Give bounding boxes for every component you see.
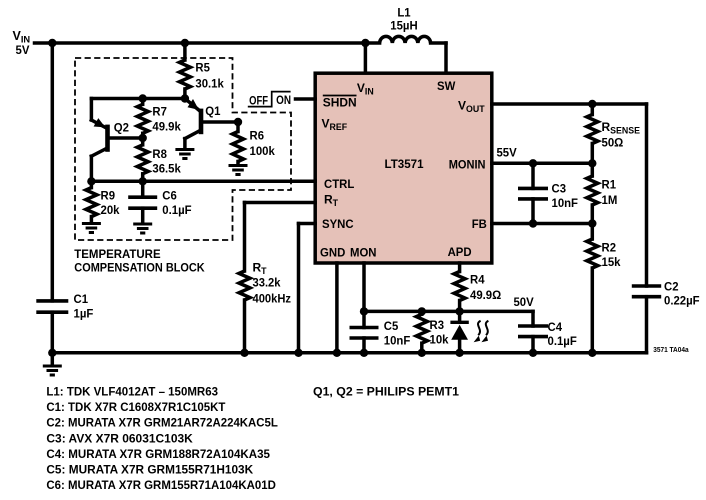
svg-text:R2: R2 [602, 241, 617, 255]
label figure id [653, 345, 689, 354]
label bill of materials [46, 384, 278, 492]
svg-text:GND: GND [320, 245, 346, 259]
transistor Q1 [185, 99, 238, 149]
junction FB / C3 [529, 219, 537, 227]
svg-text:0.22µF: 0.22µF [664, 293, 700, 307]
svg-text:CTRL: CTRL [324, 177, 354, 191]
wire VIN pin drop [364, 43, 368, 73]
svg-text:FB: FB [472, 217, 487, 231]
photodiode D1 [450, 311, 468, 352]
junction top rail / L1 and VIN pin [361, 39, 369, 47]
resistor R1 [587, 163, 598, 223]
resistor R5 [179, 43, 190, 99]
junction bottom rail / photodiode [455, 349, 463, 357]
junction bottom rail / R3 [418, 349, 426, 357]
label R7 value [152, 105, 181, 134]
svg-text:C5: MURATA X7R GRM155R71H103K: C5: MURATA X7R GRM155R71H103K [46, 463, 253, 477]
junction temp top / R7 [139, 94, 147, 102]
junction bottom rail / R2 [588, 349, 596, 357]
pin MON [350, 245, 377, 259]
wire MON row [364, 310, 533, 314]
svg-text:L1: TDK VLF4012AT – 150MR63: L1: TDK VLF4012AT – 150MR63 [46, 384, 218, 398]
junction bottom rail / C1 ground [48, 349, 56, 357]
label R3 value [430, 318, 449, 347]
junction bottom rail / C5 [360, 349, 368, 357]
svg-text:50V: 50V [514, 295, 534, 309]
capacitor C6 [128, 181, 157, 222]
junction bottom rail / C4 [529, 349, 537, 357]
label U1 part number [385, 157, 424, 171]
label R6 value [250, 129, 276, 159]
pin VOUT [458, 99, 485, 115]
wire RT net [245, 203, 316, 272]
svg-text:ON: ON [276, 93, 291, 107]
resistor RSENSE [587, 104, 598, 163]
label R8 value [152, 147, 181, 176]
wire SHDN stub [296, 97, 316, 101]
label temperature compensation block [74, 247, 205, 275]
label node 50V [514, 295, 534, 309]
svg-text:15k: 15k [602, 255, 621, 269]
pin RT [324, 193, 339, 209]
label RSENSE value [602, 120, 641, 150]
svg-text:1µF: 1µF [74, 307, 94, 321]
junction MON row / MON pin [360, 307, 368, 315]
svg-text:Q1, Q2 = PHILIPS PEMT1: Q1, Q2 = PHILIPS PEMT1 [313, 384, 459, 398]
wire left rail [51, 43, 55, 301]
junction bottom rail / SYNC [294, 349, 302, 357]
svg-text:C2: C2 [664, 280, 679, 294]
resistor R2 [587, 224, 598, 353]
svg-text:OFF: OFF [249, 93, 268, 107]
pin SYNC [322, 217, 354, 231]
label Q2 [114, 121, 130, 135]
IC U1 LT3571 body [315, 73, 492, 263]
svg-text:C1: TDK X7R C1608X7R1C105KT: C1: TDK X7R C1608X7R1C105KT [46, 400, 226, 414]
svg-text:C3: AVX X7R 06031C103K: C3: AVX X7R 06031C103K [46, 431, 193, 445]
node VIN input label [13, 29, 31, 57]
svg-text:49.9k: 49.9k [152, 120, 181, 134]
svg-text:MONIN: MONIN [449, 158, 486, 172]
capacitor C4 [518, 311, 548, 352]
svg-text:C1: C1 [74, 292, 89, 306]
capacitor C2 [632, 286, 661, 353]
svg-text:R1: R1 [602, 178, 617, 192]
junction R7 R8 Q2 base [139, 134, 147, 142]
junction MON row / R3 [418, 307, 426, 315]
label R4 value [470, 273, 502, 303]
capacitor C1 [36, 301, 68, 353]
svg-text:R9: R9 [101, 189, 116, 203]
svg-text:33.2k: 33.2k [253, 276, 281, 290]
ground at C1 [43, 353, 62, 375]
wire L1 lead left [365, 41, 379, 45]
pin SHDN [323, 96, 357, 110]
resistor RT [239, 271, 250, 353]
label C6 value [162, 189, 191, 218]
svg-text:SYNC: SYNC [322, 217, 354, 231]
svg-text:0.1µF: 0.1µF [162, 203, 191, 217]
wire CTRL net [91, 180, 315, 184]
svg-text:36.5k: 36.5k [152, 162, 181, 176]
label C1 value [74, 292, 94, 321]
svg-text:C4: MURATA X7R GRM188R72A104KA: C4: MURATA X7R GRM188R72A104KA35 [46, 447, 270, 461]
svg-text:R4: R4 [470, 273, 485, 287]
svg-text:RT: RT [253, 260, 268, 276]
svg-text:20k: 20k [101, 203, 120, 217]
svg-text:Q1: Q1 [205, 104, 221, 118]
wire SYNC net [299, 224, 316, 353]
svg-text:10nF: 10nF [384, 333, 411, 347]
resistor R3 [416, 311, 427, 352]
label R5 value [195, 61, 224, 91]
pin MONIN [449, 158, 486, 172]
wire FB net [492, 222, 593, 226]
ground at C6 [133, 224, 152, 233]
junction bottom rail / GND pin [333, 349, 341, 357]
label C3 value [552, 182, 579, 211]
label Q1 Q2 part note [313, 384, 459, 398]
junction VREF / R6 [234, 118, 242, 126]
label R2 value [602, 241, 621, 270]
svg-text:LT3571: LT3571 [385, 157, 424, 171]
svg-text:10k: 10k [430, 333, 449, 347]
junction top rail / R5 [181, 39, 189, 47]
label L1 value [390, 6, 417, 33]
svg-text:R7: R7 [152, 105, 167, 119]
pin FB [472, 217, 487, 231]
resistor R9 [86, 181, 97, 222]
svg-text:Q2: Q2 [114, 121, 130, 135]
svg-text:400kHz: 400kHz [253, 291, 292, 305]
label C5 value [384, 319, 411, 347]
svg-text:C3: C3 [552, 182, 567, 196]
capacitor C3 [518, 163, 548, 223]
svg-text:COMPENSATION BLOCK: COMPENSATION BLOCK [74, 261, 205, 275]
junction FB / R1 R2 [588, 219, 596, 227]
svg-text:0.1µF: 0.1µF [548, 334, 577, 348]
svg-text:C4: C4 [548, 320, 563, 334]
svg-text:30.1k: 30.1k [195, 77, 224, 91]
svg-text:SW: SW [437, 79, 456, 93]
label C2 value [664, 280, 700, 308]
junction MONIN / RSENSE R1 [588, 159, 596, 167]
svg-text:L1: L1 [397, 6, 411, 20]
junction MONIN / C3 [529, 159, 537, 167]
pin GND [320, 245, 346, 259]
junction temp top / R5 Q1 [181, 94, 189, 102]
label R9 value [101, 189, 120, 218]
wire L1 to SW pin [431, 43, 446, 73]
svg-text:3571 TA04a: 3571 TA04a [653, 345, 689, 354]
ground at R9 [82, 224, 101, 233]
junction bottom rail / RT [240, 349, 248, 357]
svg-text:C6: MURATA X7R GRM155R71A104KA: C6: MURATA X7R GRM155R71A104KA01D [46, 478, 276, 492]
label Q1 [205, 104, 221, 118]
junction VOUT / RSENSE [588, 100, 596, 108]
pin VIN [357, 81, 374, 97]
svg-text:10nF: 10nF [552, 196, 579, 210]
wire bottom ground rail [52, 351, 646, 355]
label OFF ON toggle [248, 92, 291, 108]
pin VREF [322, 117, 348, 133]
junction CTRL / Q2 collector R9 [87, 177, 95, 185]
svg-text:R6: R6 [250, 129, 265, 143]
svg-text:50Ω: 50Ω [602, 136, 624, 150]
label R1 value [602, 178, 618, 208]
wire temp block top [91, 97, 184, 101]
resistor R8 [137, 138, 148, 181]
svg-text:R8: R8 [152, 147, 167, 161]
svg-text:APD: APD [448, 245, 472, 259]
svg-text:R5: R5 [195, 61, 210, 75]
pin SW [437, 79, 456, 93]
ground at R6 [229, 166, 248, 175]
junction CTRL / R8 C6 [139, 177, 147, 185]
resistor R7 [137, 99, 148, 139]
label C4 value [548, 320, 577, 348]
wire MON pin [362, 263, 366, 328]
svg-text:C5: C5 [384, 319, 399, 333]
ground at Q1 collector [175, 150, 194, 159]
inductor L1 [380, 36, 431, 43]
svg-text:15µH: 15µH [390, 19, 417, 33]
photodiode light arrows [474, 321, 489, 342]
resistor R6 [233, 122, 244, 164]
svg-text:RSENSE: RSENSE [602, 120, 641, 136]
resistor R4 [454, 272, 465, 312]
svg-text:C2: MURATA X7R GRM21AR72A224KA: C2: MURATA X7R GRM21AR72A224KAC5L [46, 416, 278, 430]
pin CTRL [324, 177, 354, 191]
svg-text:49.9Ω: 49.9Ω [470, 288, 502, 302]
svg-text:55V: 55V [497, 146, 517, 160]
junction top rail / left rail [48, 39, 56, 47]
svg-text:C6: C6 [162, 189, 177, 203]
svg-text:R3: R3 [430, 318, 445, 332]
svg-text:MON: MON [350, 245, 377, 259]
wire GND pin [335, 263, 339, 353]
junction MON row / photodiode [455, 307, 463, 315]
dashed temperature compensation box [75, 58, 291, 240]
svg-text:5V: 5V [16, 43, 30, 57]
svg-text:SHDN: SHDN [323, 96, 357, 110]
svg-text:TEMPERATURE: TEMPERATURE [74, 247, 160, 261]
svg-text:100k: 100k [250, 144, 276, 158]
pin APD [448, 245, 472, 259]
svg-text:1M: 1M [602, 193, 618, 207]
wire MONIN net [492, 162, 593, 166]
label node 55V [497, 146, 517, 160]
transistor Q2 [91, 99, 142, 182]
wire APD pin [458, 263, 462, 272]
capacitor C5 [350, 328, 379, 353]
wire top rail [35, 41, 366, 45]
label RT value [253, 260, 292, 305]
wire VOUT net [492, 104, 647, 286]
